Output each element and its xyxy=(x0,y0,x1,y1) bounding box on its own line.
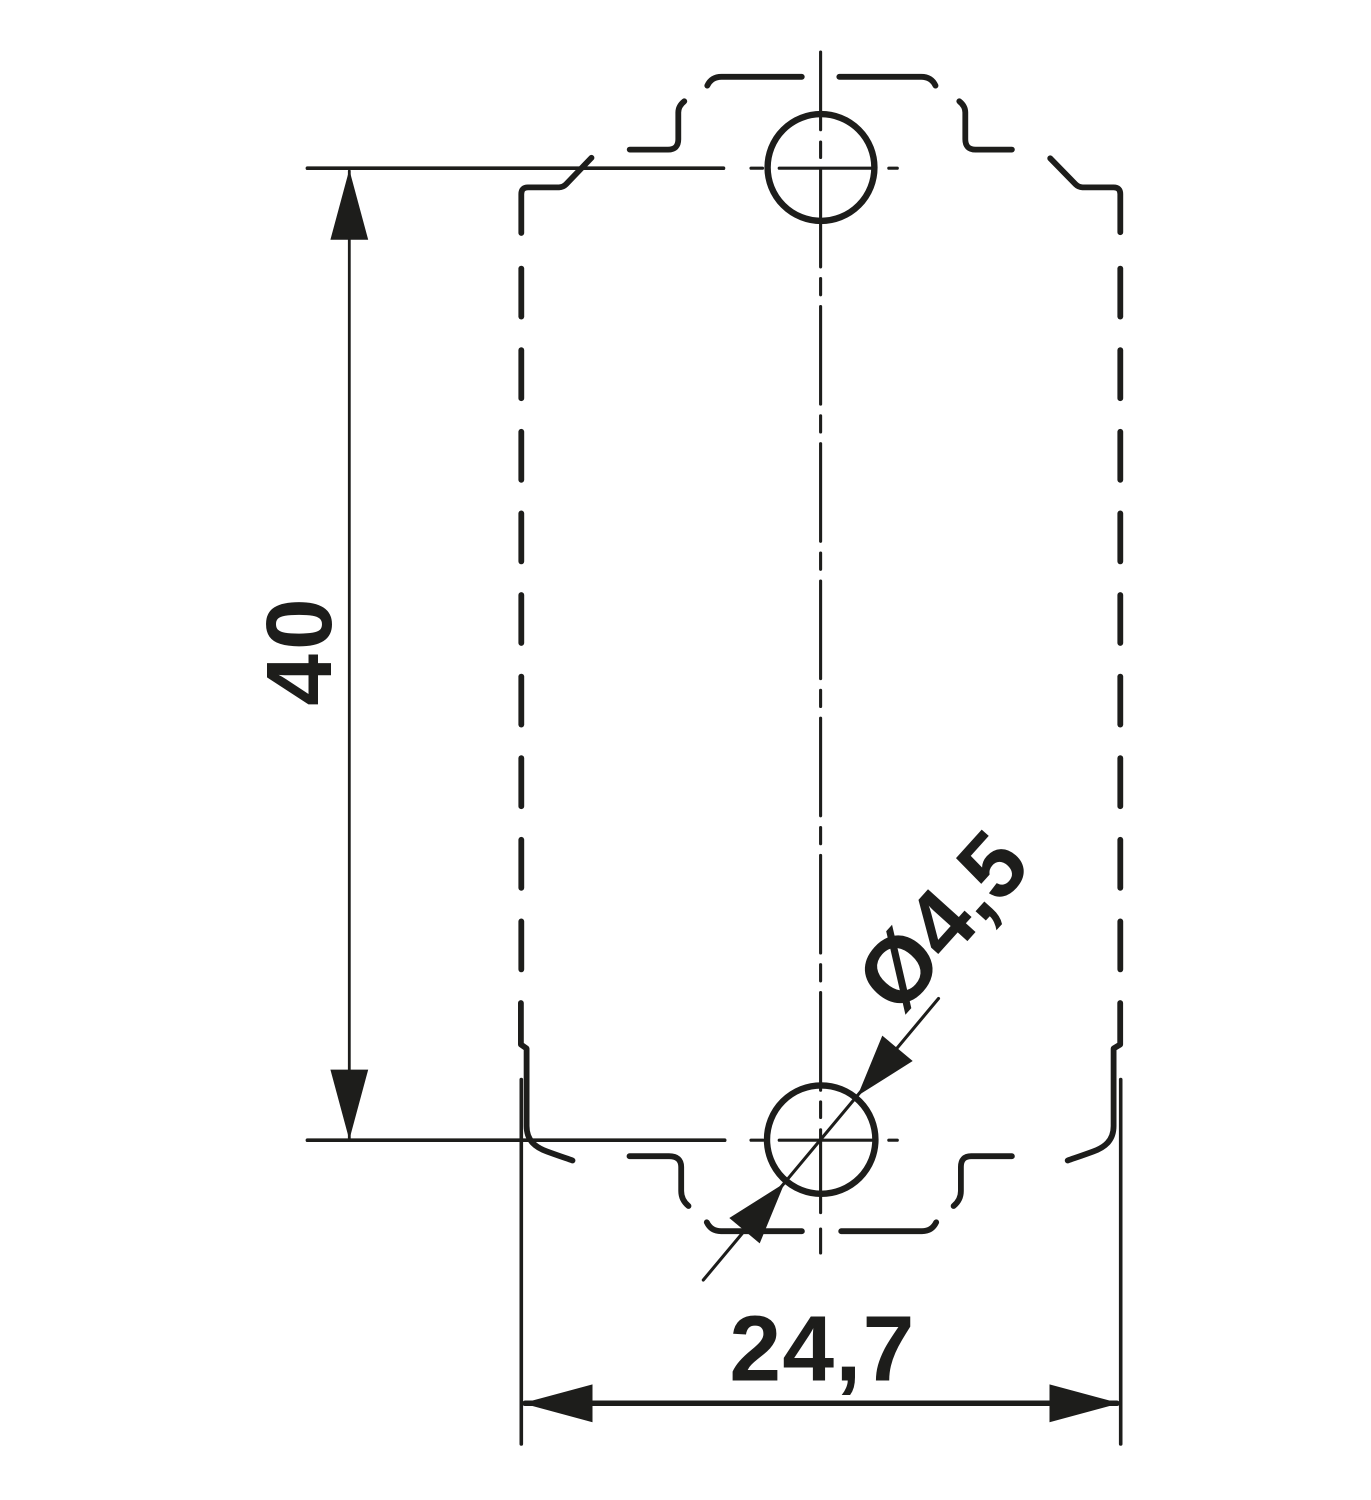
cutout outline: bottom tab left wall xyxy=(630,1156,689,1206)
centerline vertical (through both holes) xyxy=(819,52,822,1253)
extension line left (for dim 24,7) xyxy=(519,1080,523,1445)
leader line diameter 4,5 xyxy=(703,999,938,1281)
arrowhead dim 24,7 left xyxy=(522,1384,592,1422)
cutout outline: top tab left wall xyxy=(630,101,685,149)
cutout outline: bottom cap edge right dash xyxy=(841,1222,936,1231)
cutout outline: top-right corner with chamfer xyxy=(1050,158,1120,232)
hole H2 (bottom mounting hole) xyxy=(767,1085,875,1193)
hole H1 (top mounting hole) xyxy=(768,114,875,221)
arrowhead dim 24,7 right xyxy=(1050,1384,1120,1422)
cutout outline: bottom-left corner with relief arc xyxy=(521,1003,573,1161)
extension line bottom (for dim 40) xyxy=(307,1138,724,1142)
cutout outline: top tab right wall xyxy=(959,101,1012,149)
centerline horizontal through hole H2 xyxy=(751,1139,897,1142)
cutout outline: bottom tab right wall xyxy=(954,1156,1012,1206)
cutout outline: top cap edge left dash xyxy=(707,77,802,86)
cutout outline: right edge dashes xyxy=(1117,269,1123,970)
arrowhead leader lower (at hole H2 rim) xyxy=(729,1183,784,1243)
extension line top (for dim 40) xyxy=(307,166,723,170)
arrowhead dim 40 bottom xyxy=(330,1070,368,1140)
dimension line 24,7 xyxy=(525,1401,1117,1407)
arrowhead leader upper (at hole H2 rim) xyxy=(858,1036,913,1096)
arrowhead dim 40 top xyxy=(330,170,368,240)
cutout outline: left edge dashes xyxy=(518,269,524,970)
cutout outline: bottom cap edge left dash xyxy=(707,1222,802,1231)
cutout outline: top-left corner with chamfer xyxy=(521,158,591,233)
extension line right (for dim 24,7) xyxy=(1119,1080,1123,1445)
svg-text:40: 40 xyxy=(247,594,351,705)
centerline horizontal through hole H1 xyxy=(751,167,897,170)
svg-text:24,7: 24,7 xyxy=(729,1297,915,1401)
cutout outline: bottom-right corner with relief arc xyxy=(1068,1003,1121,1161)
dimension line 40 xyxy=(348,171,351,1139)
cutout outline: top cap edge right dash xyxy=(839,77,935,86)
